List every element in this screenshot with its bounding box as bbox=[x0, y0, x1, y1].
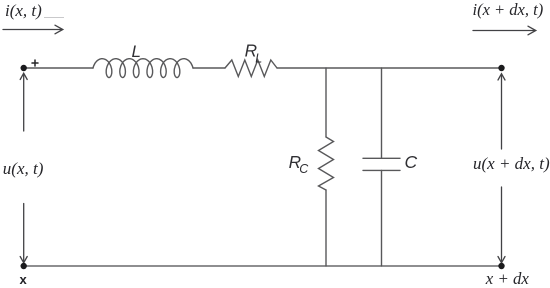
svg-text:L: L bbox=[132, 42, 141, 61]
resistor RC zigzag bbox=[319, 137, 334, 190]
wire RC branch bottom lead bbox=[325, 190, 327, 266]
inductor L coil bbox=[93, 59, 193, 78]
svg-text:u(x + dx, t): u(x + dx, t) bbox=[473, 154, 550, 173]
svg-text:i(x, t): i(x, t) bbox=[5, 1, 42, 20]
wire bottom rail bbox=[24, 265, 502, 267]
arrow current i(x,t) bbox=[3, 29, 62, 31]
node bottom-right bbox=[498, 263, 504, 269]
svg-text:L: L bbox=[255, 51, 262, 65]
svg-text:C: C bbox=[299, 162, 309, 176]
wire top rail right segment bbox=[277, 67, 502, 69]
wire RC branch top lead bbox=[325, 68, 327, 137]
svg-text:x: x bbox=[20, 272, 28, 287]
arrow voltage u(x,t) upper bbox=[23, 74, 25, 131]
node top-right bbox=[498, 65, 504, 71]
node top-left bbox=[21, 65, 27, 71]
capacitor C top plate bbox=[363, 157, 400, 159]
ghost line bbox=[44, 17, 64, 19]
arrow voltage u(x+dx,t) lower bbox=[501, 187, 503, 262]
resistor RL zigzag bbox=[225, 60, 277, 77]
node bottom-left bbox=[21, 263, 27, 269]
wire C branch bottom lead bbox=[381, 170, 383, 266]
arrow current i(x+dx,t) bbox=[473, 30, 535, 32]
svg-text:x + dx: x + dx bbox=[485, 269, 530, 288]
capacitor C bottom plate bbox=[363, 169, 400, 171]
polarity plus sign bbox=[32, 60, 38, 66]
arrow voltage u(x,t) lower bbox=[23, 204, 25, 263]
arrow voltage u(x+dx,t) upper bbox=[501, 75, 503, 150]
wire C branch top lead bbox=[381, 68, 383, 158]
svg-text:i(x + dx, t): i(x + dx, t) bbox=[473, 0, 544, 19]
svg-text:C: C bbox=[405, 152, 418, 172]
svg-text:u(x, t): u(x, t) bbox=[3, 159, 44, 178]
wire top rail between L and RL bbox=[193, 67, 225, 69]
wire top rail left segment bbox=[27, 67, 94, 69]
